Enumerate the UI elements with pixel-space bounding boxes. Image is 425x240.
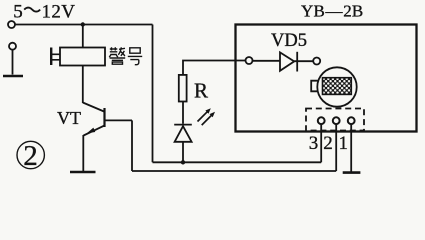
wire rail B (to terminal 2)	[132, 170, 336, 172]
transistor VT emitter lead with arrow	[84, 126, 105, 136]
svg-text:5: 5	[13, 1, 23, 22]
wire diode to terminal	[294, 60, 313, 62]
wire base to rail B	[131, 120, 133, 171]
terminal T1 (supply +)	[8, 21, 15, 28]
label 5~12V	[13, 1, 75, 22]
wire base lead	[105, 119, 132, 121]
transistor VT base bar	[103, 108, 105, 127]
LED light arrows	[198, 108, 216, 125]
socket dashed box	[306, 109, 364, 131]
label 号 (hand-drawn)	[128, 48, 142, 65]
label 警 (hand-drawn)	[109, 47, 125, 64]
terminal pin 1	[348, 117, 355, 124]
terminal VD5 cathode	[313, 58, 320, 65]
transistor VT collector lead	[83, 103, 104, 112]
wire rail A (to terminal 3)	[153, 161, 322, 163]
horn fork prongs	[52, 54, 60, 60]
terminal pin 3	[318, 117, 325, 124]
buzzer element circle	[317, 67, 356, 106]
wire LED to R	[182, 102, 184, 124]
wire T2 down	[12, 50, 14, 75]
wire R top	[183, 61, 246, 75]
svg-text:YB—2B: YB—2B	[301, 2, 363, 21]
svg-text:VD5: VD5	[271, 31, 307, 51]
terminal pin 2	[333, 117, 340, 124]
wire to diode	[253, 60, 280, 62]
svg-text:1: 1	[339, 133, 349, 154]
svg-text:2: 2	[323, 133, 333, 154]
terminal VD5 anode	[246, 57, 253, 64]
svg-text:2: 2	[23, 140, 38, 172]
LED cathode bar	[174, 124, 192, 126]
ground (pin 1)	[343, 171, 361, 174]
wire pin1 to ground	[350, 124, 352, 172]
horn fork bar	[50, 48, 52, 66]
wire +V drop	[152, 25, 154, 163]
terminal T2 (supply -)	[9, 43, 16, 50]
figure number 2	[17, 141, 44, 168]
LED VL triangle	[175, 126, 192, 142]
svg-text:VT: VT	[57, 108, 81, 128]
wire emitter down	[82, 135, 84, 171]
wire horn bottom to collector	[82, 66, 84, 104]
wire horn top	[82, 25, 84, 48]
buzzer side bracket	[311, 81, 317, 92]
wire terminal 2 lead	[335, 124, 337, 171]
wire LED bottom	[182, 142, 184, 163]
ground (supply)	[3, 75, 23, 78]
horn HA body	[60, 48, 105, 66]
node junction dot (horn branch)	[81, 22, 85, 26]
svg-text:12V: 12V	[42, 1, 76, 22]
diode VD5 triangle	[280, 52, 294, 70]
resistor R body	[179, 75, 187, 102]
wire top rail	[15, 24, 153, 26]
node LED junction	[181, 160, 185, 164]
diode VD5 cathode bar	[296, 52, 298, 72]
module YB-2B box	[236, 25, 417, 132]
wire terminal 3 lead	[320, 124, 322, 162]
buzzer crystal plate (hatched)	[323, 78, 352, 95]
svg-text:R: R	[194, 79, 208, 103]
svg-text:3: 3	[309, 133, 319, 154]
ground (emitter)	[70, 171, 96, 174]
